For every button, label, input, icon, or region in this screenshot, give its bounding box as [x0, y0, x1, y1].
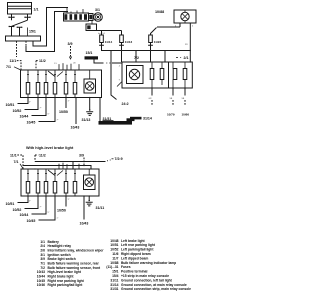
svg-text:3R: 3R	[185, 44, 188, 46]
+15 strip bar	[85, 56, 99, 59]
wire rail s2 lower	[23, 166, 91, 170]
battery terminal right	[24, 14, 30, 20]
svg-text:SB: SB	[170, 98, 173, 100]
svg-text:7*: 7*	[40, 207, 42, 209]
battery 1/1	[8, 3, 32, 15]
svg-text:10/51: 10/51	[6, 202, 15, 206]
label 11/1 top box1	[10, 59, 22, 70]
resistor s2-6	[73, 169, 77, 196]
sensor lamp box1	[84, 70, 96, 93]
resistor 7/2-b	[160, 62, 164, 85]
wire 7/2 out a	[149, 88, 153, 106]
wire from switch to bar	[27, 28, 29, 37]
svg-text:11/1: 11/1	[10, 153, 17, 157]
bulb failure sensor rear 7/1 box (schematic 1)	[21, 70, 102, 98]
wire 10/43 s2	[83, 196, 85, 220]
label 2/1 with leader	[176, 56, 188, 60]
label 11/2 s2	[35, 153, 46, 161]
svg-text:11/13: 11/13	[125, 40, 133, 44]
svg-text:Bulb failure warning indicator: Bulb failure warning indicator lamp	[121, 261, 176, 265]
svg-text:10/88: 10/88	[110, 261, 118, 265]
svg-text:24:2: 24:2	[122, 102, 129, 106]
svg-text:7/2: 7/2	[134, 56, 139, 60]
svg-text:7/1: 7/1	[14, 160, 19, 164]
svg-text:Left parking/tail light: Left parking/tail light	[121, 248, 154, 252]
node junctions on rail	[121, 50, 122, 51]
wire feed outer hook	[26, 12, 68, 52]
svg-text:4: 4	[119, 66, 121, 68]
svg-text:10/51: 10/51	[6, 103, 15, 107]
svg-text:Bulb failure warning sensor, r: Bulb failure warning sensor, rear	[48, 262, 100, 266]
svg-text:31/14: 31/14	[143, 117, 152, 121]
svg-text:Right dipped beam: Right dipped beam	[121, 252, 151, 256]
wire fuse11/13 into box	[121, 51, 123, 63]
wire 10/52 s1	[25, 98, 42, 110]
svg-text:10/43: 10/43	[71, 126, 80, 130]
svg-text:2/6: 2/6	[40, 249, 45, 253]
switch lower contact left	[9, 26, 15, 36]
wire 10/50 s1	[66, 98, 70, 109]
svg-text:15/1: 15/1	[86, 51, 93, 55]
svg-text:31/14: 31/14	[110, 283, 118, 287]
resistor s2-4	[53, 169, 57, 196]
svg-text:31/11: 31/11	[96, 206, 105, 210]
svg-text:Left dipped beam: Left dipped beam	[121, 256, 148, 260]
svg-text:3/9: 3/9	[79, 154, 84, 158]
wire dashed from 3/9	[70, 46, 72, 58]
wire 10/44 s2	[32, 196, 50, 214]
legend right column	[106, 239, 191, 291]
svg-text:10/66: 10/66	[182, 113, 190, 117]
svg-text:LB: LB	[73, 63, 76, 65]
svg-text:5*: 5*	[48, 114, 50, 116]
svg-text:10/50: 10/50	[59, 110, 68, 114]
svg-text:10/52: 10/52	[110, 248, 118, 252]
wire feed rail y50	[102, 48, 191, 51]
ignition switch 3/1	[64, 8, 103, 22]
wire crossing detail box1	[48, 71, 63, 77]
wire rail drop a	[135, 51, 137, 63]
svg-text:9: 9	[119, 80, 121, 82]
svg-text:10/44: 10/44	[37, 275, 45, 279]
wire ignition to fuses	[97, 29, 122, 31]
svg-text:10/79: 10/79	[167, 113, 175, 117]
svg-text:Intermittent relay, windscreen: Intermittent relay, windscreen wiper	[48, 249, 105, 253]
pin 10/88-2	[189, 23, 191, 27]
svg-text:11/6: 11/6	[112, 252, 118, 256]
svg-text:10/88: 10/88	[155, 10, 164, 14]
svg-text:3/1: 3/1	[95, 8, 100, 12]
resistor s1-4	[53, 70, 57, 98]
resistor 2/1-a	[173, 62, 177, 88]
wire rail drop b	[164, 51, 166, 63]
svg-text:Right brake light: Right brake light	[48, 275, 75, 279]
svg-text:1/1: 1/1	[34, 8, 39, 12]
wire rail s2 upper	[35, 161, 106, 163]
svg-text:GR: GR	[149, 98, 153, 100]
wire feed inner hook	[33, 8, 68, 47]
label 11/1 s2	[10, 153, 23, 169]
svg-text:10/44: 10/44	[20, 213, 29, 217]
wire 10/50 s2	[66, 196, 70, 207]
resistor s2-5	[64, 169, 68, 196]
wire 10/51 s2	[18, 196, 32, 203]
wire 7/2 out c	[182, 88, 186, 106]
wire 10/43 s1	[75, 98, 77, 125]
wire dashed 11/1 drop	[16, 41, 18, 57]
wire to connector 24:2	[111, 51, 122, 100]
wire 10/45 s2	[39, 196, 59, 220]
svg-text:1*: 1*	[68, 199, 70, 201]
svg-text:Ground connection, at main rel: Ground connection, at main relay console	[121, 283, 187, 287]
warning lamp 10/88	[174, 10, 196, 23]
svg-text:11/7: 11/7	[112, 256, 118, 260]
bus bar	[6, 36, 41, 41]
resistor s1-1	[26, 70, 30, 98]
svg-text:31/13: 31/13	[82, 118, 91, 122]
ground 31/13	[86, 98, 93, 116]
resistor s1-6	[73, 70, 77, 98]
fuse 11/14	[99, 31, 104, 48]
svg-text:With high-level brake light: With high-level brake light	[26, 146, 74, 150]
svg-text:5*: 5*	[29, 201, 31, 203]
svg-text:10/51: 10/51	[110, 243, 118, 247]
resistor 2/1-b	[183, 62, 187, 88]
wire fuse11/22 into box	[150, 51, 152, 63]
svg-text:10/43: 10/43	[80, 222, 89, 226]
node dots 7/2 box edges	[135, 61, 136, 62]
wire 10/44 s1	[32, 98, 50, 116]
svg-text:15/4: 15/4	[112, 274, 119, 278]
svg-text:31/31: 31/31	[110, 287, 118, 291]
wire crossing detail box2	[48, 170, 63, 176]
node dots box2 top	[22, 168, 23, 169]
svg-text:10/46: 10/46	[37, 283, 45, 287]
svg-text:Ground connection strip, main: Ground connection strip, main relay cons…	[121, 287, 191, 291]
svg-text:11/14: 11/14	[105, 40, 113, 44]
svg-text:Left rear parking light: Left rear parking light	[121, 243, 156, 247]
svg-text:10/52: 10/52	[13, 208, 22, 212]
wire lamp right drop	[189, 27, 191, 62]
wire 10/45 s1	[39, 98, 59, 122]
switch lower contact mid	[17, 27, 23, 36]
label 31/31	[103, 117, 114, 121]
svg-text:10/52: 10/52	[13, 109, 22, 113]
svg-text:2/1: 2/1	[184, 56, 189, 60]
bulb failure sensor front 7/2 box	[122, 62, 192, 88]
node dots box1 bottom	[27, 97, 90, 98]
svg-text:7/1: 7/1	[40, 262, 45, 266]
svg-text:4: 4	[192, 26, 194, 28]
svg-text:11/2: 11/2	[39, 59, 46, 63]
ground strip 31/31	[99, 117, 142, 125]
svg-text:10/50: 10/50	[57, 209, 66, 213]
svg-text:11/22: 11/22	[154, 40, 162, 44]
label 7/1 s2	[14, 160, 24, 168]
svg-text:+15 strip in main relay consol: +15 strip in main relay console	[121, 274, 169, 278]
wire 7/2 out b	[170, 88, 174, 106]
svg-text:Fuses: Fuses	[121, 265, 131, 269]
legend left column	[37, 240, 104, 287]
svg-text:5*: 5*	[29, 102, 31, 104]
switch 15/1 blade	[12, 20, 28, 26]
wire 10/51 s1	[18, 98, 32, 104]
svg-text:(11)...31: (11)...31	[106, 265, 118, 269]
svg-text:5*: 5*	[48, 212, 50, 214]
wire dashed 11/2 drop	[25, 41, 27, 46]
label 11/2 top box1	[36, 59, 46, 70]
svg-text:10/48: 10/48	[110, 239, 118, 243]
svg-text:7/1: 7/1	[6, 65, 11, 69]
svg-text:Ground connection, left tail l: Ground connection, left tail light	[121, 278, 173, 282]
node dots box2 bottom	[27, 195, 89, 196]
wire drop s2	[72, 162, 74, 170]
label 7/1	[6, 65, 20, 69]
wire stubs above box1	[59, 64, 79, 70]
resistor s1-2	[36, 70, 40, 98]
svg-text:SB: SB	[182, 98, 185, 100]
fuse 11/13	[119, 31, 124, 51]
resistor s1-5	[64, 70, 68, 98]
sensor lamp in 7/2	[127, 66, 144, 84]
svg-text:11/1: 11/1	[10, 59, 17, 63]
svg-text:3/9: 3/9	[68, 42, 73, 46]
svg-text:Left brake light: Left brake light	[121, 239, 146, 243]
battery terminal left	[8, 14, 14, 20]
ground 31/11	[86, 196, 93, 206]
wire 10/52 s2	[25, 196, 42, 209]
wire lamp to fuse 11/22	[157, 26, 180, 28]
fuse 11/22	[148, 28, 156, 51]
svg-text:10/44: 10/44	[20, 115, 29, 119]
svg-text:15/1: 15/1	[112, 270, 119, 274]
divider 7/2 box	[168, 62, 170, 88]
resistor 7/2-a	[150, 62, 154, 88]
svg-text:7*: 7*	[40, 108, 42, 110]
dash-dot to 7/2:9	[107, 159, 114, 162]
resistor s2-3	[44, 169, 48, 196]
wire strip to sensor with dash-dot	[94, 60, 122, 64]
svg-text:1*: 1*	[68, 101, 70, 103]
svg-text:Positive terminal: Positive terminal	[121, 270, 147, 274]
label 3/9 s2	[79, 154, 84, 166]
resistor s2-2	[36, 169, 40, 196]
svg-text:10/45: 10/45	[27, 121, 36, 125]
bulb failure sensor rear 7/1 box (schematic 2)	[21, 169, 99, 196]
wire stubs above box2	[59, 164, 79, 170]
svg-text:15/1: 15/1	[29, 29, 36, 33]
node dots box1 top	[20, 69, 21, 70]
resistor s1-3	[44, 70, 48, 98]
svg-text:31/11: 31/11	[110, 278, 118, 282]
ignition switch sub-contact	[86, 21, 97, 31]
svg-text:7*: 7*	[57, 218, 59, 220]
svg-text:Right parking/tail light: Right parking/tail light	[48, 283, 84, 287]
resistor s2-1	[26, 169, 30, 196]
wire box1 to ground strip	[99, 98, 101, 122]
svg-text:1.5: 1.5	[54, 63, 58, 65]
svg-text:10/45: 10/45	[27, 219, 36, 223]
svg-text:11/2: 11/2	[39, 153, 46, 157]
sensor lamp box2	[84, 169, 96, 190]
pin 10/88-1	[179, 23, 181, 27]
svg-text:7*: 7*	[57, 120, 59, 122]
svg-text:7/2:9: 7/2:9	[115, 157, 123, 161]
